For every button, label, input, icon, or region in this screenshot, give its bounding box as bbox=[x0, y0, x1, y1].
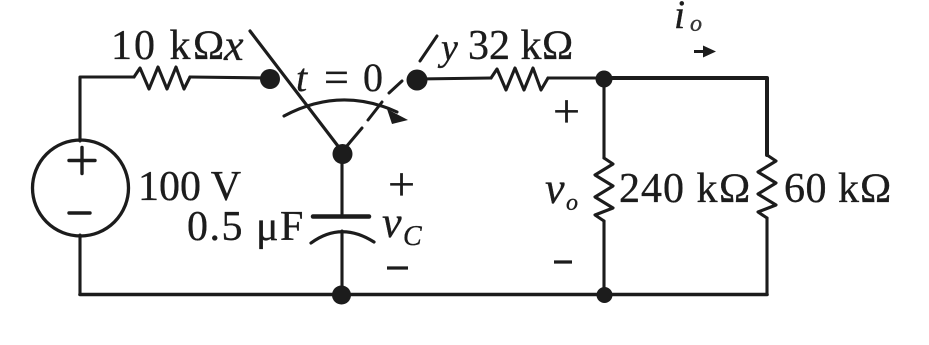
wire resistor to node x bbox=[190, 77, 270, 78]
current io arrowhead bbox=[703, 46, 716, 58]
label slash before y bbox=[420, 36, 437, 61]
node y contact dot bbox=[407, 70, 428, 91]
resistor R1 10 kOhm bbox=[134, 67, 190, 89]
switch thrown-position dashes toward y bbox=[346, 81, 402, 147]
svg-text:x: x bbox=[223, 21, 244, 70]
label minus of vo bbox=[554, 260, 572, 263]
switch blade from x contact to pivot bbox=[250, 31, 343, 152]
wire node C to top-right corner and down bbox=[604, 78, 767, 155]
svg-text:y: y bbox=[437, 27, 458, 69]
wire bottom rail bbox=[80, 293, 767, 297]
svg-text:0.5 μF: 0.5 μF bbox=[187, 204, 305, 250]
resistor R3 240 kOhm vertical bbox=[595, 158, 613, 221]
svg-text:io: io bbox=[674, 0, 702, 37]
node x contact dot bbox=[260, 69, 280, 89]
switch motion arc bbox=[284, 100, 397, 116]
wire capacitor to bottom node bbox=[340, 231, 343, 295]
wire top-left from source to resistor bbox=[80, 77, 134, 141]
wire 60k to bottom rail bbox=[765, 218, 768, 295]
wire pivot to capacitor top plate bbox=[340, 163, 343, 214]
switch pivot node dot bbox=[333, 144, 353, 164]
label minus of vC bbox=[387, 266, 408, 269]
capacitor C1 curved bottom plate bbox=[311, 232, 374, 243]
svg-text:vo: vo bbox=[545, 164, 578, 216]
svg-text:t=0: t=0 bbox=[296, 53, 383, 102]
wire 240k to bottom node bbox=[602, 221, 605, 295]
bottom node under 240k bbox=[597, 287, 613, 303]
bottom node under capacitor bbox=[332, 286, 351, 305]
current io arrow tail bbox=[694, 50, 704, 53]
wire node C down to 240k bbox=[602, 87, 605, 158]
wire source bottom to bottom rail bbox=[78, 235, 81, 295]
voltage source V1 100 V bbox=[33, 140, 129, 236]
svg-text:60 kΩ: 60 kΩ bbox=[784, 166, 892, 212]
node C junction dot bbox=[596, 71, 613, 88]
svg-text:+: + bbox=[553, 85, 580, 138]
switch arc arrowhead bbox=[387, 109, 408, 124]
wire y contact to resistor 32k bbox=[417, 78, 491, 79]
resistor R2 32 kOhm bbox=[491, 68, 548, 90]
minus sign inside source bbox=[69, 211, 90, 214]
svg-text:240 kΩ: 240 kΩ bbox=[619, 166, 752, 212]
svg-text:10 kΩ: 10 kΩ bbox=[111, 23, 227, 69]
plus sign inside source bbox=[69, 148, 95, 174]
wire 32k to node C bbox=[548, 76, 604, 79]
svg-text:32 kΩ: 32 kΩ bbox=[468, 23, 574, 69]
capacitor C1 top plate bbox=[313, 214, 369, 219]
resistor R4 60 kOhm vertical bbox=[758, 155, 776, 218]
